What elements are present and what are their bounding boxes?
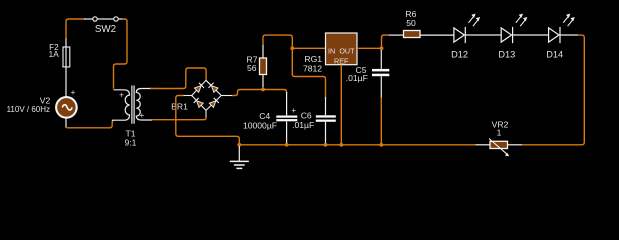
junction: ground node — [237, 143, 241, 147]
svg-text:REF: REF — [334, 56, 349, 65]
resistor R7 — [247, 45, 267, 90]
wire: primary bottom run — [67, 120, 115, 128]
capacitor C6 — [292, 97, 336, 145]
svg-text:.01µF: .01µF — [292, 120, 314, 130]
svg-text:+: + — [139, 111, 144, 120]
wire: V2 bottom lead (white) — [65, 118, 67, 128]
resistor R6 — [389, 9, 454, 38]
wire: IN node to regulator — [292, 47, 325, 49]
svg-text:56: 56 — [247, 63, 257, 73]
wire: bridge left vertex lead (white) — [183, 95, 192, 97]
junction: R7 bottom on node A — [261, 88, 265, 92]
svg-text:BR1: BR1 — [171, 101, 188, 111]
svg-text:1: 1 — [497, 127, 502, 137]
svg-text:D14: D14 — [546, 50, 563, 60]
svg-text:10000µF: 10000µF — [243, 121, 277, 131]
svg-text:+: + — [71, 88, 76, 97]
transformer T1 — [112, 86, 153, 148]
junction: REF bottom — [339, 143, 343, 147]
wire: right side drop to bottom rail — [522, 35, 584, 145]
wire: bridge right to node A (R7 bottom / C4 top) — [232, 90, 287, 96]
regulator RG1 — [303, 33, 357, 74]
LED D13 — [498, 14, 527, 60]
svg-text:+: + — [291, 106, 296, 115]
svg-text:D13: D13 — [498, 50, 515, 60]
switch SW2 — [84, 17, 123, 35]
capacitor C4 — [243, 92, 297, 145]
capacitor C5 — [346, 50, 390, 98]
svg-text:OUT: OUT — [339, 46, 355, 55]
wire: D13 to D14 (white) — [513, 34, 549, 36]
junction: OUT node — [380, 46, 384, 50]
wire: REF pin to ground rail — [340, 65, 342, 145]
wire: C5 bottom to rail — [380, 98, 382, 145]
svg-text:C4: C4 — [259, 111, 270, 121]
svg-text:SW2: SW2 — [95, 24, 116, 35]
wire: bridge right vertex lead (white) — [221, 95, 233, 97]
svg-text:+: + — [119, 91, 124, 100]
wire: IN node down to C6 — [292, 48, 325, 98]
svg-text:1A: 1A — [49, 50, 60, 59]
fuse F2 — [49, 43, 70, 67]
junction: C6 bottom — [324, 143, 328, 147]
junction: C5 bottom — [379, 143, 383, 147]
junction: IN node — [290, 46, 294, 50]
wire: D12 to D13 (white) — [465, 34, 501, 36]
wire: OUT node up to R6 — [382, 35, 390, 48]
potentiometer VR2 — [476, 119, 523, 156]
wire: V2/F2 riser to top rail — [66, 19, 85, 39]
svg-text:110V / 60Hz: 110V / 60Hz — [7, 105, 50, 114]
LED D12 — [451, 14, 480, 60]
source V2 — [7, 88, 77, 118]
svg-text:IN: IN — [328, 46, 335, 55]
svg-text:C6: C6 — [301, 111, 312, 121]
LED D14 — [546, 14, 575, 60]
wire: secondary bottom to bridge bottom — [152, 116, 206, 120]
wire: D14 to right edge drop (white then orange) — [560, 34, 578, 36]
junction: C4 bottom — [285, 143, 289, 147]
wire: top rail after switch, corner down to jog — [114, 19, 128, 89]
wire: OUT pin to output node — [357, 47, 382, 49]
wire: R7 top to RG1 IN node — [263, 35, 292, 48]
wire: bottom ground rail — [239, 144, 475, 146]
bridge rectifier BR1 — [171, 80, 221, 116]
svg-text:.01µF: .01µF — [346, 73, 368, 83]
svg-text:D12: D12 — [451, 50, 468, 60]
svg-text:7812: 7812 — [303, 64, 322, 74]
wire: secondary top to bridge top — [150, 68, 206, 89]
ground — [230, 146, 249, 168]
svg-text:9:1: 9:1 — [125, 137, 137, 147]
wire: bridge left vertex to ground node — [176, 96, 240, 145]
svg-text:50: 50 — [406, 18, 416, 28]
fuse F2 lead (white, through fuse to source top) — [65, 39, 67, 97]
